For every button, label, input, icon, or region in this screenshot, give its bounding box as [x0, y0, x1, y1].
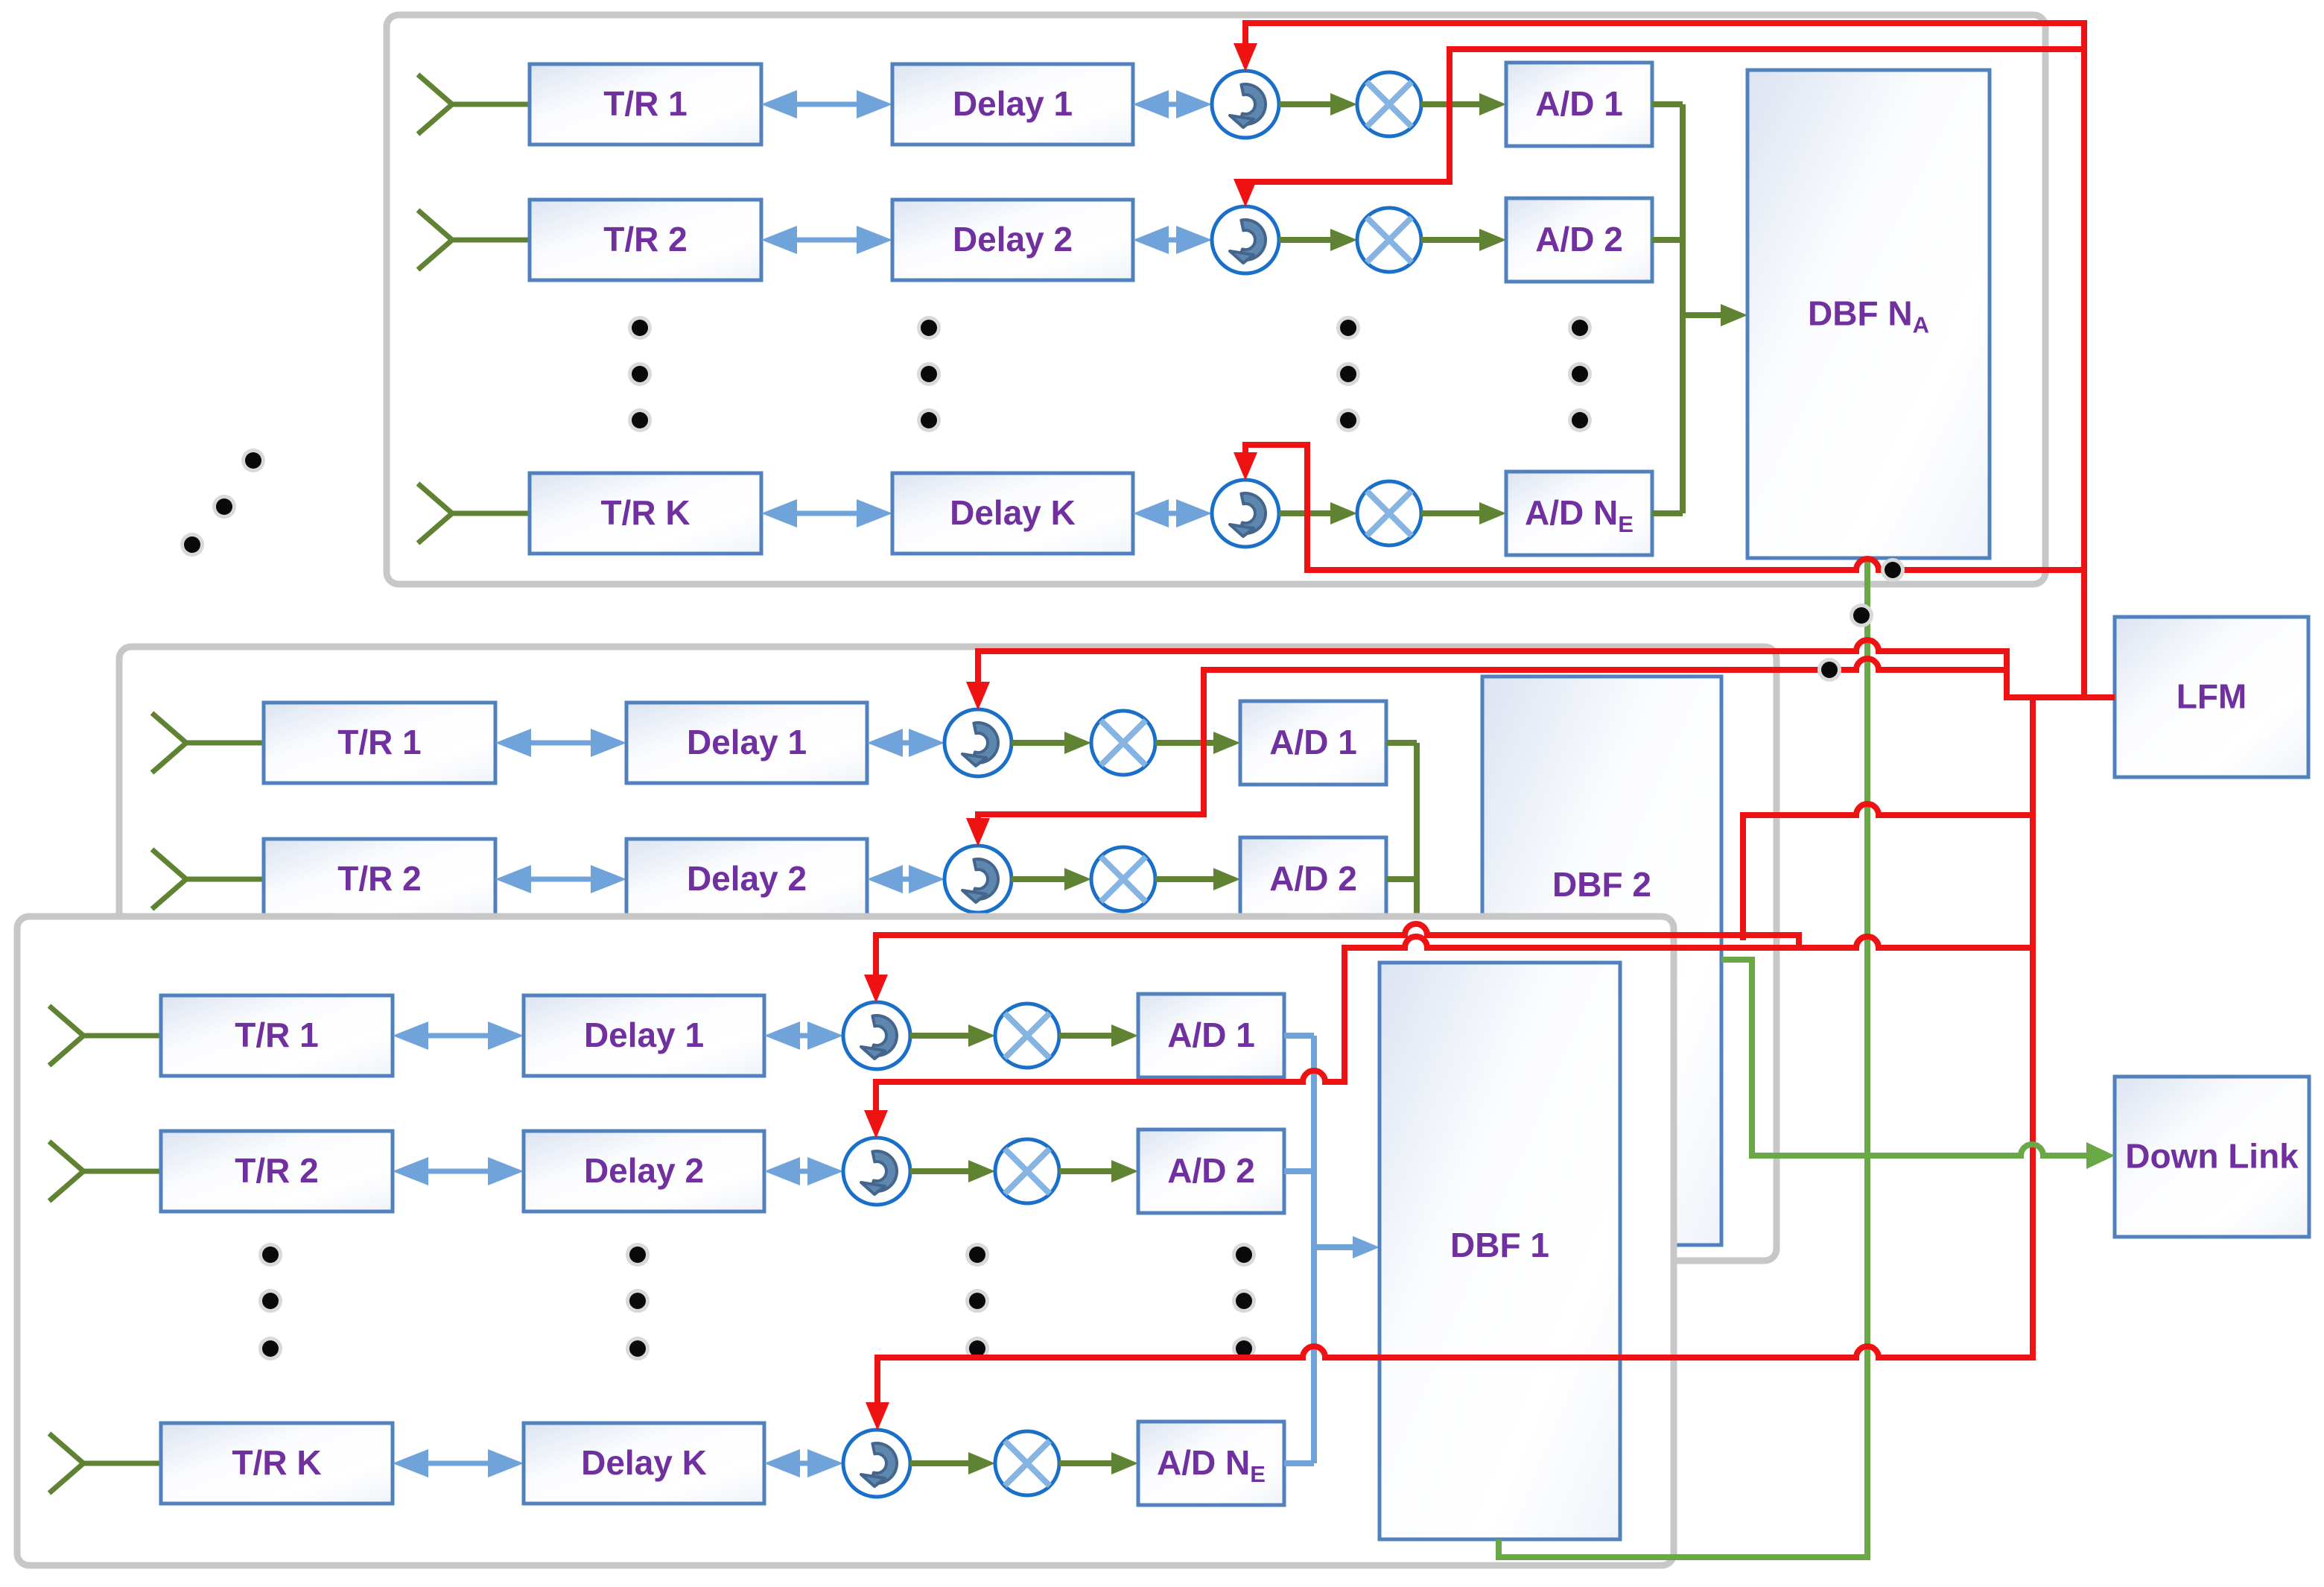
- vertical dots (panel 3): [626, 1243, 650, 1360]
- T/R K block (panel 3): [161, 1423, 393, 1504]
- A/D 1 block (panel 2): [1240, 701, 1386, 785]
- antenna (panel 3 row 2): [49, 1141, 161, 1201]
- wire circulator - mixer (panel 1 row 3): [1279, 502, 1357, 525]
- svg-text:T/R 1: T/R 1: [603, 84, 687, 123]
- LFM feed spine vertical middle: [2030, 694, 2036, 1360]
- svg-text:Delay 2: Delay 2: [953, 220, 1073, 259]
- svg-text:Delay K: Delay K: [581, 1443, 707, 1482]
- wire LFM input: [2004, 694, 2115, 700]
- red wire to circulator AK: [1234, 442, 1310, 573]
- svg-text:T/R K: T/R K: [232, 1443, 321, 1482]
- wire T/R 2 - Delay 2 (panel 3): [393, 1157, 524, 1185]
- LFM block: [2115, 617, 2308, 777]
- mixer (panel 1 row 3): [1357, 481, 1421, 545]
- circulator (panel 3 row 1): [843, 1002, 910, 1069]
- red wire to circulator CK: [866, 1346, 2036, 1431]
- wire circulator - mixer (panel 1 row 2): [1279, 229, 1357, 251]
- antenna (panel 1 row 3): [418, 484, 530, 543]
- A/D 1 block (panel 3): [1138, 994, 1284, 1077]
- A/D collector bus (panel 3): [1311, 1036, 1317, 1463]
- wire collector - DBF NA input (panel 1): [1683, 304, 1747, 326]
- svg-text:T/R 1: T/R 1: [337, 723, 421, 761]
- svg-text:DBF 1: DBF 1: [1450, 1226, 1549, 1264]
- wire mixer - A/D (panel 2 row 1): [1155, 732, 1240, 754]
- antenna (panel 1 row 2): [418, 210, 530, 270]
- svg-text:A/D 1: A/D 1: [1167, 1016, 1255, 1054]
- A/D collector bus (panel 2): [1414, 743, 1420, 964]
- mixer (panel 2 row 1): [1091, 711, 1155, 775]
- wire T/R 1 - Delay 1 (panel 1): [761, 90, 892, 118]
- svg-text:Delay 1: Delay 1: [953, 84, 1073, 123]
- svg-text:A/D NE: A/D NE: [1157, 1443, 1266, 1487]
- red wire to circulator C1: [864, 924, 2033, 1003]
- DBF 1 block (panel 3): [1380, 963, 1620, 1539]
- mixer (panel 1 row 2): [1357, 208, 1421, 272]
- T/R K block (panel 1): [530, 473, 761, 554]
- svg-text:T/R 2: T/R 2: [337, 859, 421, 898]
- wire A/D 1 output (panel 2): [1386, 740, 1417, 746]
- red wire to circulator B1: [966, 640, 2007, 710]
- wire Delay K - circulator (panel 3): [764, 1449, 843, 1477]
- antenna (panel 2 row 1): [152, 713, 264, 773]
- Delay 1 block (panel 1): [892, 64, 1133, 145]
- svg-text:T/R 2: T/R 2: [603, 220, 687, 259]
- Delay 1 block (panel 3): [524, 995, 764, 1076]
- wire circulator - mixer (panel 3 row 1): [910, 1024, 995, 1047]
- DBF NA output wire: [1864, 558, 1870, 1557]
- A/D collector bus (panel 1): [1680, 104, 1686, 513]
- DBF 2 block (panel 2): [1482, 677, 1721, 1245]
- red wire to circulator B2: [966, 659, 2007, 846]
- LFM feed spine vertical left: [2004, 648, 2010, 700]
- A/D N block (panel 3): [1138, 1422, 1284, 1505]
- vertical dots (panel 1): [917, 316, 941, 432]
- svg-text:Down Link: Down Link: [2125, 1137, 2299, 1176]
- circulator (panel 3 row 2): [843, 1138, 910, 1205]
- svg-text:T/R K: T/R K: [600, 493, 690, 532]
- antenna (panel 1 row 1): [418, 75, 530, 134]
- Delay 2 block (panel 1): [892, 200, 1133, 280]
- panel 2 (middle subarray) frame: [119, 647, 1777, 1261]
- svg-text:A/D 1: A/D 1: [1269, 723, 1357, 761]
- mixer (panel 3 row 2): [995, 1139, 1059, 1203]
- wire circulator - mixer (panel 1 row 1): [1279, 93, 1357, 115]
- circulator (panel 2 row 1): [944, 709, 1012, 776]
- panel 1 (top subarray) frame: [387, 15, 2045, 584]
- DBF NA block (panel 1): [1747, 70, 1990, 558]
- T/R 2 block (panel 3): [161, 1131, 393, 1211]
- circulator (panel 1 row 2): [1212, 206, 1279, 273]
- T/R 1 block (panel 1): [530, 64, 761, 145]
- antenna (panel 3 row 3): [49, 1434, 161, 1493]
- LFM feed spine vertical right: [2081, 20, 2087, 697]
- circulator (panel 1 row 1): [1212, 71, 1279, 138]
- circulator (panel 2 row 2): [944, 846, 1012, 913]
- antenna (panel 2 row 2): [152, 849, 264, 909]
- wire collector - DBF 2 input (panel 2): [1417, 953, 1482, 975]
- red feed line row K panel 1: [1307, 559, 2084, 570]
- A/D 2 block (panel 2): [1240, 837, 1386, 921]
- svg-text:Delay K: Delay K: [950, 493, 1076, 532]
- svg-text:Delay 1: Delay 1: [687, 723, 807, 761]
- Delay 2 block (panel 2): [626, 839, 867, 919]
- mixer (panel 3 row 1): [995, 1004, 1059, 1068]
- DBF 1 output wire: [1499, 1539, 1870, 1557]
- wire A/D 2 output (panel 3): [1284, 1168, 1314, 1174]
- mixer (panel 1 row 1): [1357, 72, 1421, 136]
- A/D 2 block (panel 1): [1506, 198, 1652, 282]
- wire Delay K - circulator (panel 1): [1133, 499, 1212, 528]
- wire mixer - A/D (panel 1 row 1): [1421, 93, 1506, 115]
- wire Delay 1 - circulator (panel 2): [867, 729, 944, 757]
- wire Delay 1 - circulator (panel 1): [1133, 90, 1212, 118]
- wire circulator - mixer (panel 2 row 1): [1012, 732, 1091, 754]
- vertical dots (panel 1): [628, 316, 652, 432]
- svg-text:A/D 2: A/D 2: [1269, 859, 1357, 898]
- svg-text:T/R 2: T/R 2: [235, 1151, 318, 1190]
- Delay K block (panel 3): [524, 1423, 764, 1504]
- svg-text:DBF NA: DBF NA: [1808, 294, 1929, 338]
- T/R 1 block (panel 3): [161, 995, 393, 1076]
- wire mixer - A/D (panel 2 row 2): [1155, 868, 1240, 890]
- svg-text:A/D 1: A/D 1: [1535, 84, 1623, 123]
- T/R 2 block (panel 1): [530, 200, 761, 280]
- wire mixer - A/D (panel 1 row 2): [1421, 229, 1506, 251]
- svg-text:Delay 1: Delay 1: [584, 1016, 704, 1054]
- vertical dots (panel 3): [965, 1243, 989, 1360]
- wire mixer - A/D (panel 3 row 3): [1059, 1452, 1138, 1474]
- red loop vertical segment: [1740, 812, 1746, 940]
- wire circulator - mixer (panel 3 row 2): [910, 1160, 995, 1182]
- red loop upper segment: [1740, 804, 2033, 815]
- wire T/R 2 - Delay 2 (panel 1): [761, 226, 892, 254]
- panel 3 (bottom subarray) frame: [17, 916, 1674, 1565]
- svg-text:A/D 2: A/D 2: [1167, 1151, 1255, 1190]
- red wire to circulator C2: [864, 937, 2033, 1138]
- mixer (panel 3 row 3): [995, 1431, 1059, 1495]
- wire circulator - mixer (panel 3 row 3): [910, 1452, 995, 1474]
- svg-text:LFM: LFM: [2177, 677, 2247, 716]
- wire A/D 2 output (panel 2): [1386, 876, 1417, 882]
- wire Delay 2 - circulator (panel 3): [764, 1157, 843, 1185]
- Down Link block: [2115, 1077, 2309, 1237]
- Delay K block (panel 1): [892, 473, 1133, 554]
- wire Delay 2 - circulator (panel 1): [1133, 226, 1212, 254]
- wire mixer - A/D (panel 3 row 1): [1059, 1024, 1138, 1047]
- T/R 2 block (panel 2): [264, 839, 495, 919]
- mixer (panel 2 row 2): [1091, 847, 1155, 911]
- wire Delay 1 - circulator (panel 3): [764, 1021, 843, 1050]
- wire T/R K - Delay K (panel 1): [761, 499, 892, 528]
- wire T/R 2 - Delay 2 (panel 2): [495, 865, 626, 893]
- vertical dots (panel 1): [1568, 316, 1592, 432]
- svg-text:Delay 2: Delay 2: [687, 859, 807, 898]
- wire A/D 2 output (panel 1): [1652, 237, 1683, 243]
- svg-text:A/D 2: A/D 2: [1535, 220, 1623, 259]
- antenna (panel 3 row 1): [49, 1006, 161, 1065]
- circulator (panel 3 row 3): [843, 1430, 910, 1497]
- DBF 2 output wire: [1721, 960, 1752, 1159]
- wire mixer - A/D (panel 1 row 3): [1421, 502, 1506, 525]
- svg-text:Delay 2: Delay 2: [584, 1151, 704, 1190]
- svg-text:A/D NE: A/D NE: [1525, 493, 1634, 537]
- diagonal dots left (more subarrays): [180, 449, 265, 557]
- A/D 1 block (panel 1): [1506, 63, 1652, 146]
- Delay 1 block (panel 2): [626, 703, 867, 783]
- diagonal dots right (more subarrays): [1817, 558, 1905, 682]
- A/D 2 block (panel 3): [1138, 1130, 1284, 1213]
- vertical dots (panel 1): [1336, 316, 1360, 432]
- wire mixer - A/D (panel 3 row 2): [1059, 1160, 1138, 1182]
- wire collector - DBF 1 input (panel 3): [1314, 1236, 1380, 1258]
- wire A/D N output (panel 3): [1284, 1460, 1314, 1466]
- vertical dots (panel 3): [258, 1243, 282, 1360]
- wire T/R 1 - Delay 1 (panel 3): [393, 1021, 524, 1050]
- wire T/R 1 - Delay 1 (panel 2): [495, 729, 626, 757]
- red wire to circulator A2: [1234, 46, 2084, 207]
- wire to Down Link: [1749, 1142, 2115, 1169]
- wire A/D N output (panel 1): [1652, 510, 1683, 516]
- vertical dots (panel 3): [1232, 1243, 1256, 1360]
- Delay 2 block (panel 3): [524, 1131, 764, 1211]
- svg-text:DBF 2: DBF 2: [1552, 865, 1651, 904]
- svg-text:T/R 1: T/R 1: [235, 1016, 318, 1054]
- wire T/R K - Delay K (panel 3): [393, 1449, 524, 1477]
- T/R 1 block (panel 2): [264, 703, 495, 783]
- circulator (panel 1 row 3): [1212, 480, 1279, 547]
- red wire to circulator A1: [1234, 23, 2087, 72]
- wire A/D 1 output (panel 3): [1284, 1033, 1314, 1039]
- wire A/D 1 output (panel 1): [1652, 101, 1683, 107]
- wire circulator - mixer (panel 2 row 2): [1012, 868, 1091, 890]
- A/D N block (panel 1): [1506, 472, 1652, 555]
- wire Delay 2 - circulator (panel 2): [867, 865, 944, 893]
